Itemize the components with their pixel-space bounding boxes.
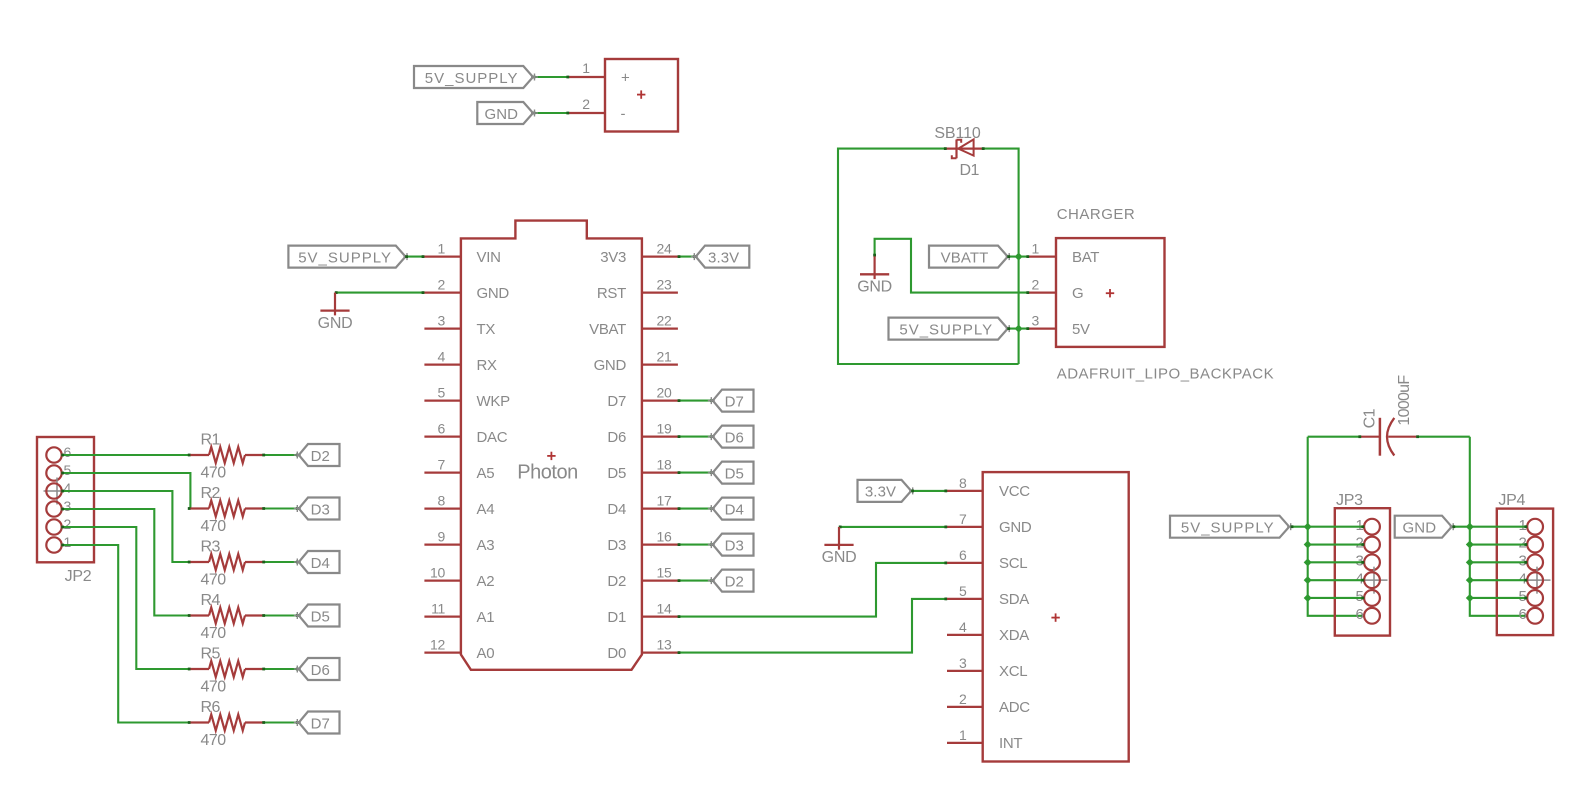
svg-text:1: 1 <box>1032 241 1040 257</box>
Photon module U1 outline <box>461 221 642 670</box>
resistor R2 <box>190 485 262 535</box>
svg-text:14: 14 <box>657 601 672 617</box>
svg-text:ADC: ADC <box>999 699 1030 716</box>
svg-text:D3: D3 <box>607 537 626 554</box>
svg-text:D2: D2 <box>607 573 626 590</box>
resistor R5 <box>190 646 262 696</box>
svg-text:JP4: JP4 <box>1498 492 1525 509</box>
sensor pin 4 (XDA) <box>947 619 1029 644</box>
Photon pin 5 (WKP) <box>424 385 510 410</box>
charger pin 3 (5V) <box>1029 313 1090 338</box>
wire JP4 bus to pin 3 <box>1470 561 1527 564</box>
wire JP4 bus vertical <box>1470 437 1527 618</box>
svg-text:23: 23 <box>657 277 672 293</box>
wire GND to battery pin 2 <box>533 112 570 115</box>
svg-text:D2: D2 <box>725 573 744 590</box>
svg-text:JP2: JP2 <box>65 568 92 585</box>
net flag D4 (Photon) <box>708 498 754 520</box>
svg-text:4: 4 <box>64 480 72 496</box>
Photon pin 3 (TX) <box>424 313 495 338</box>
JP3 reference label <box>1336 492 1363 509</box>
sensor pin 7 (GND) <box>947 511 1032 536</box>
wire charger GND net <box>873 239 1029 294</box>
svg-text:3: 3 <box>438 313 446 329</box>
wire JP2 pin 2 to R5 <box>61 526 190 671</box>
svg-text:19: 19 <box>657 421 672 437</box>
junction JP4 row 3 <box>1466 558 1474 566</box>
net flag GND (JP4) <box>1395 516 1457 538</box>
svg-text:1: 1 <box>64 534 72 550</box>
svg-text:XCL: XCL <box>999 663 1027 680</box>
JP2 pin 3 circle <box>46 498 71 517</box>
wire JP2 pin 1 to R6 <box>61 544 190 724</box>
net flag GND (top left) <box>477 102 538 124</box>
charger pin 1 (BAT) <box>1029 241 1099 266</box>
svg-text:GND: GND <box>1403 520 1437 537</box>
JP2 pin 5 circle <box>46 462 71 480</box>
sensor pin 1 (INT) <box>947 727 1022 752</box>
net flag D6 (Photon) <box>708 426 754 448</box>
svg-text:4: 4 <box>438 349 446 365</box>
wire 5V_SUPPLY flag to charger 5V <box>1007 327 1029 330</box>
wire D0 net: Photon pin 13 to MPU SDA <box>678 598 948 655</box>
svg-text:7: 7 <box>438 457 446 473</box>
svg-text:12: 12 <box>430 637 445 653</box>
wire VBATT loop (diode left / bottom) <box>838 147 1019 364</box>
wire 5V loop (diode right vertical) <box>982 147 1019 364</box>
JP4 pin 6 circle <box>1518 606 1543 624</box>
JP3 pin 2 circle <box>1355 535 1379 553</box>
wire R2 to D3 flag <box>262 507 298 510</box>
wire JP2 pin 6 to R1 <box>61 454 190 457</box>
wire Photon pin 15 to D2 flag <box>678 579 713 582</box>
sensor pin 5 (SDA) <box>947 583 1029 608</box>
junction JP4 row 2 <box>1466 541 1474 549</box>
JP2 pin 4 circle <box>44 478 72 505</box>
svg-text:D3: D3 <box>311 501 330 518</box>
wire Photon pin 20 to D7 flag <box>678 399 713 402</box>
junction JP3 row 4 <box>1304 576 1312 584</box>
svg-text:VBATT: VBATT <box>941 249 989 266</box>
svg-text:8: 8 <box>959 475 967 491</box>
wire JP3 bus to pin 4 <box>1308 579 1365 582</box>
Photon pin 22 (VBAT) <box>589 313 678 338</box>
wire JP2 pin 5 to R2 <box>61 472 190 510</box>
net flag VBATT <box>929 246 1013 268</box>
svg-text:SDA: SDA <box>999 591 1029 608</box>
svg-text:A4: A4 <box>477 501 495 518</box>
net flag D2 (left) <box>294 444 340 466</box>
JP4 reference label <box>1498 492 1525 509</box>
svg-text:7: 7 <box>959 511 967 527</box>
svg-text:20: 20 <box>657 385 672 401</box>
svg-text:1: 1 <box>438 241 446 257</box>
net flag D7 (Photon) <box>708 390 754 412</box>
svg-text:18: 18 <box>657 457 672 473</box>
svg-text:A5: A5 <box>477 465 495 482</box>
svg-text:C1: C1 <box>1361 408 1378 428</box>
JP3 pin 5 circle <box>1355 588 1379 606</box>
svg-text:2: 2 <box>1032 277 1040 293</box>
svg-text:TX: TX <box>477 321 496 338</box>
svg-text:1: 1 <box>959 727 967 743</box>
svg-text:GND: GND <box>999 519 1032 536</box>
net flag D2 (Photon) <box>708 570 754 592</box>
svg-text:1000uF: 1000uF <box>1396 375 1413 426</box>
net flag D5 (left) <box>294 605 340 627</box>
svg-text:JP3: JP3 <box>1336 492 1363 509</box>
JP2 pin 6 circle <box>46 444 71 462</box>
Photon pin 12 (A0) <box>424 637 494 662</box>
svg-text:D7: D7 <box>725 393 744 410</box>
junction JP3 row 1 <box>1304 523 1312 531</box>
svg-text:6: 6 <box>1518 606 1526 623</box>
JP3 pin 6 circle <box>1355 606 1379 624</box>
svg-text:D1: D1 <box>607 609 626 626</box>
battery connector X1 body <box>605 59 678 132</box>
svg-text:5: 5 <box>438 385 446 401</box>
JP4 pin 1 circle <box>1518 517 1543 535</box>
junction JP4 row 5 <box>1466 594 1474 602</box>
svg-text:1: 1 <box>582 60 590 76</box>
junction 5V_SUPPLY <box>1015 325 1023 333</box>
svg-text:GND: GND <box>477 285 510 302</box>
svg-text:8: 8 <box>438 493 446 509</box>
Photon pin 15 (D2) <box>607 565 677 590</box>
svg-text:A0: A0 <box>477 645 495 662</box>
net flag D6 (left) <box>294 658 340 680</box>
svg-text:6: 6 <box>959 547 967 563</box>
svg-text:D6: D6 <box>607 429 626 446</box>
junction JP4 row 4 <box>1466 576 1474 584</box>
svg-text:6: 6 <box>438 421 446 437</box>
resistor R3 <box>190 539 262 589</box>
svg-text:9: 9 <box>438 529 446 545</box>
resistor R6 <box>190 699 262 749</box>
wire 5V_SUPPLY flag to JP3 <box>1291 525 1308 528</box>
svg-text:22: 22 <box>657 313 672 329</box>
wire JP3 bus to pin 3 <box>1308 561 1365 564</box>
svg-text:6: 6 <box>1355 606 1363 623</box>
svg-text:470: 470 <box>201 572 227 589</box>
svg-text:R3: R3 <box>201 539 221 556</box>
net flag 5V_SUPPLY (charger) <box>889 318 1013 340</box>
wire Photon pin 18 to D5 flag <box>678 471 713 474</box>
svg-text:GND: GND <box>594 357 627 374</box>
wire VBATT flag to charger BAT <box>1007 255 1029 258</box>
connector JP2 body <box>37 437 94 562</box>
battery pin 2 <box>569 96 605 113</box>
net flag 5V_SUPPLY (JP3) <box>1170 516 1294 538</box>
ground symbol (Photon) <box>318 293 353 332</box>
capacitor C1 <box>1361 375 1416 456</box>
wire Photon pin 19 to D6 flag <box>678 435 713 438</box>
wire JP3 bus to pin 5 <box>1308 597 1365 600</box>
sensor module U2 body <box>983 472 1129 761</box>
svg-text:D4: D4 <box>607 501 626 518</box>
charger pin 2 (G) <box>1029 277 1083 302</box>
charger label CHARGER <box>1057 206 1136 223</box>
svg-text:VIN: VIN <box>477 249 501 266</box>
JP4 pin 3 circle <box>1518 553 1543 571</box>
Photon pin 24 (3V3) <box>600 241 678 266</box>
wire JP2 pin 3 to R4 <box>61 508 190 617</box>
svg-text:SCL: SCL <box>999 555 1027 572</box>
wire D1 net: Photon pin 14 to MPU SCL <box>678 562 948 619</box>
svg-text:D2: D2 <box>311 448 330 465</box>
Photon pin 14 (D1) <box>607 601 677 626</box>
svg-text:D5: D5 <box>607 465 626 482</box>
svg-text:GND: GND <box>318 315 353 332</box>
junction JP3 row 2 <box>1304 541 1312 549</box>
net flag D5 (Photon) <box>708 462 754 484</box>
net flag 5V_SUPPLY (top left) <box>414 66 538 88</box>
svg-text:D5: D5 <box>725 465 744 482</box>
svg-text:R5: R5 <box>201 646 221 663</box>
svg-text:A3: A3 <box>477 537 495 554</box>
JP4 pin 5 circle <box>1518 588 1543 606</box>
svg-text:3: 3 <box>1032 313 1040 329</box>
svg-text:R1: R1 <box>201 432 221 449</box>
svg-text:3: 3 <box>64 498 72 514</box>
svg-text:D4: D4 <box>311 555 330 572</box>
wire R3 to D4 flag <box>262 561 298 564</box>
net flag D7 (left) <box>294 712 340 734</box>
svg-text:D3: D3 <box>725 537 744 554</box>
charger module body <box>1056 238 1165 347</box>
wire R1 to D2 flag <box>262 454 298 457</box>
svg-text:ADAFRUIT_LIPO_BACKPACK: ADAFRUIT_LIPO_BACKPACK <box>1057 366 1274 383</box>
svg-text:6: 6 <box>64 444 72 460</box>
resistor R1 <box>190 432 262 482</box>
svg-text:RST: RST <box>597 285 626 302</box>
diode D1 (SB110) symbol <box>934 125 982 179</box>
svg-text:13: 13 <box>657 637 672 653</box>
JP3 pin 3 circle <box>1355 553 1379 571</box>
svg-text:3: 3 <box>959 655 967 671</box>
wire JP4 bus to pin 1 <box>1470 525 1527 528</box>
junction JP4 row 1 <box>1466 523 1474 531</box>
JP4 pin 4 circle <box>1518 567 1550 594</box>
svg-text:16: 16 <box>657 529 672 545</box>
Photon pin 23 (RST) <box>597 277 678 302</box>
svg-text:RX: RX <box>477 357 498 374</box>
svg-text:A1: A1 <box>477 609 495 626</box>
svg-text:3V3: 3V3 <box>600 249 626 266</box>
charger origin cross <box>1106 289 1114 297</box>
sensor pin 3 (XCL) <box>947 655 1027 680</box>
svg-text:470: 470 <box>201 732 227 749</box>
svg-text:CHARGER: CHARGER <box>1057 206 1136 223</box>
junction JP3 row 5 <box>1304 594 1312 602</box>
JP2 pin 2 circle <box>46 516 71 535</box>
wire JP4 bus to pin 5 <box>1470 597 1527 600</box>
wire JP2 pin 4 to R3 <box>61 490 190 564</box>
Photon pin 13 (D0) <box>607 637 677 662</box>
svg-text:15: 15 <box>657 565 672 581</box>
wire Photon pin 17 to D4 flag <box>678 507 713 510</box>
JP2 pin 1 circle <box>46 534 71 553</box>
wire JP3 bus to pin 2 <box>1308 543 1365 546</box>
wire Photon GND pin 2 <box>335 291 425 294</box>
svg-text:470: 470 <box>201 679 227 696</box>
svg-text:470: 470 <box>201 625 227 642</box>
svg-text:G: G <box>1072 285 1083 302</box>
resistor R4 <box>190 592 262 642</box>
sensor pin 8 (VCC) <box>947 475 1030 500</box>
svg-text:R6: R6 <box>201 699 221 716</box>
svg-text:4: 4 <box>959 619 967 635</box>
svg-text:-: - <box>621 105 626 122</box>
svg-text:21: 21 <box>657 349 672 365</box>
Photon pin 16 (D3) <box>607 529 677 554</box>
Photon pin 7 (A5) <box>424 457 494 482</box>
connector JP4 body <box>1497 509 1553 635</box>
svg-text:GND: GND <box>822 549 857 566</box>
svg-text:R2: R2 <box>201 485 221 502</box>
wire 3.3V flag to VCC <box>911 490 947 493</box>
svg-text:VCC: VCC <box>999 483 1030 500</box>
sensor pin 6 (SCL) <box>947 547 1027 572</box>
net flag 3.3V (sensor) <box>858 480 917 502</box>
svg-text:D6: D6 <box>725 429 744 446</box>
net flag 3.3V (Photon) <box>691 246 750 268</box>
net flag 5V_SUPPLY (Photon VIN) <box>288 246 410 268</box>
connector JP3 body <box>1335 508 1390 635</box>
Photon pin 1 (VIN) <box>424 241 500 266</box>
net flag D3 (Photon) <box>708 534 754 556</box>
svg-text:5: 5 <box>959 583 967 599</box>
svg-text:2: 2 <box>582 96 590 112</box>
svg-text:470: 470 <box>201 518 227 535</box>
svg-text:5V: 5V <box>1072 321 1090 338</box>
svg-text:INT: INT <box>999 735 1022 752</box>
junction VBATT <box>1015 253 1023 261</box>
wire R5 to D6 flag <box>262 668 298 671</box>
JP3 pin 4 circle <box>1355 567 1387 594</box>
svg-text:BAT: BAT <box>1072 249 1099 266</box>
svg-text:Photon: Photon <box>517 462 577 484</box>
svg-text:11: 11 <box>431 601 445 617</box>
svg-text:3.3V: 3.3V <box>708 249 739 266</box>
svg-text:VBAT: VBAT <box>589 321 626 338</box>
battery pin 1 <box>569 60 605 77</box>
svg-text:10: 10 <box>430 565 445 581</box>
svg-text:XDA: XDA <box>999 627 1029 644</box>
wire JP4 bus to pin 4 <box>1470 579 1527 582</box>
wire C1 right to JP4 bus <box>1416 435 1470 438</box>
svg-text:470: 470 <box>201 465 227 482</box>
net flag D3 (left) <box>294 498 340 520</box>
junction JP3 row 3 <box>1304 558 1312 566</box>
svg-text:D1: D1 <box>960 162 980 179</box>
wire C1 left to JP3 bus <box>1308 435 1362 438</box>
Photon pin 18 (D5) <box>607 457 677 482</box>
svg-text:D7: D7 <box>311 715 330 732</box>
svg-text:2: 2 <box>438 277 446 293</box>
svg-text:D7: D7 <box>607 393 626 410</box>
Photon pin 11 (A1) <box>424 601 494 626</box>
wire R6 to D7 flag <box>262 721 298 724</box>
svg-text:DAC: DAC <box>477 429 508 446</box>
svg-text:D4: D4 <box>725 501 744 518</box>
wire 3V3 pin 24 to 3.3V flag <box>678 255 696 258</box>
svg-text:17: 17 <box>657 493 672 509</box>
Photon label and origin <box>517 452 577 484</box>
wire JP4 bus to pin 2 <box>1470 543 1527 546</box>
svg-text:5V_SUPPLY: 5V_SUPPLY <box>298 249 392 266</box>
wire 5V_SUPPLY to battery pin 1 <box>533 76 570 79</box>
svg-text:24: 24 <box>657 241 672 257</box>
svg-text:A2: A2 <box>477 573 495 590</box>
ground symbol (charger) <box>857 256 892 295</box>
sensor pin 2 (ADC) <box>947 691 1030 716</box>
svg-text:3.3V: 3.3V <box>865 484 896 501</box>
svg-text:5V_SUPPLY: 5V_SUPPLY <box>425 70 519 87</box>
wire Photon pin 16 to D3 flag <box>678 543 713 546</box>
JP3 pin 1 circle <box>1355 517 1379 535</box>
wire 5V_SUPPLY to VIN pin 1 <box>405 255 424 258</box>
svg-text:+: + <box>621 70 630 87</box>
net flag D4 (left) <box>294 551 340 573</box>
charger label ADAFRUIT_LIPO_BACKPACK <box>1057 366 1274 383</box>
svg-text:GND: GND <box>484 106 518 123</box>
Photon pin 10 (A2) <box>424 565 494 590</box>
ground symbol (sensor) <box>822 527 857 566</box>
Photon pin 19 (D6) <box>607 421 677 446</box>
wire JP3 bus to pin 1 <box>1308 525 1365 528</box>
svg-text:SB110: SB110 <box>934 125 981 142</box>
Photon pin 9 (A3) <box>424 529 494 554</box>
Photon pin 6 (DAC) <box>424 421 507 446</box>
svg-text:5V_SUPPLY: 5V_SUPPLY <box>1181 520 1275 537</box>
svg-text:D6: D6 <box>311 662 330 679</box>
svg-text:5V_SUPPLY: 5V_SUPPLY <box>899 321 993 338</box>
Photon pin 2 (GND) <box>424 277 509 302</box>
svg-text:D5: D5 <box>311 608 330 625</box>
sensor origin cross <box>1051 613 1059 621</box>
Photon pin 20 (D7) <box>607 385 677 410</box>
JP4 pin 2 circle <box>1518 535 1543 553</box>
wire sensor GND <box>839 526 947 529</box>
Photon pin 21 (GND) <box>594 349 678 374</box>
wire R4 to D5 flag <box>262 614 298 617</box>
svg-text:GND: GND <box>857 279 892 296</box>
svg-text:WKP: WKP <box>477 393 511 410</box>
svg-text:D0: D0 <box>607 645 626 662</box>
wire JP3 bus vertical <box>1308 437 1365 618</box>
Photon pin 4 (RX) <box>424 349 497 374</box>
svg-text:R4: R4 <box>201 592 221 609</box>
wire GND flag to JP4 <box>1452 525 1469 528</box>
JP2 reference label <box>65 568 92 585</box>
svg-text:2: 2 <box>64 516 72 532</box>
Photon pin 17 (D4) <box>607 493 677 518</box>
Photon pin 8 (A4) <box>424 493 494 518</box>
svg-text:5: 5 <box>64 462 72 478</box>
svg-text:2: 2 <box>959 691 967 707</box>
